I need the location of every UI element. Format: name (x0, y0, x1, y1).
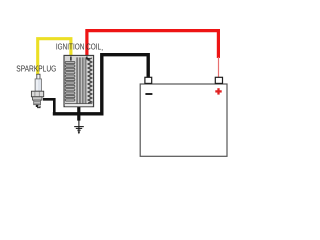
ignition coil T1: light margin strip above bottom edge (65, 104, 93, 106)
ignition coil T1: primary entry hook under yellow lead (70, 57, 72, 61)
battery: plus polarity mark (215, 88, 221, 94)
wire: thin red lead into battery + terminal (218, 57, 220, 78)
svg-text:SPARKPLUG: SPARKPLUG (16, 64, 56, 74)
battery: positive terminal post (215, 77, 222, 83)
ignition coil T1: secondary winding zigzag (right) (88, 58, 92, 103)
wire: red supply wire from coil + terminal to battery + (87, 31, 219, 58)
label: period after COIL (102, 49, 103, 50)
wire: thick bottom ground rail (53, 112, 104, 115)
ground: arrow tip (78, 132, 81, 135)
wire: coil secondary/common bottom lead down through ground rail (77, 102, 80, 121)
ignition coil T1: secondary entry hook under red lead (87, 57, 90, 59)
wire: black wire from ground rail up and over to battery - terminal (102, 55, 148, 115)
spark plug: centre electrode and ground electrode hook (36, 105, 39, 107)
battery: case (140, 84, 227, 156)
battery: minus polarity mark (145, 93, 152, 95)
svg-text:IGNITION COIL: IGNITION COIL (56, 42, 101, 52)
ignition coil T1: inner winding-area bottom border (65, 103, 92, 105)
spark plug: threaded section (34, 100, 41, 105)
battery: negative terminal post (145, 77, 152, 83)
ignition coil T1: primary winding turns (left stack of bars) (65, 61, 75, 101)
ignition coil T1: outer case (64, 55, 94, 106)
ground: earth/ground symbol below coil (74, 120, 84, 132)
spark plug: hex nut (31, 91, 43, 97)
spark plug: ceramic insulator (35, 79, 41, 91)
spark plug: shell/gasket band (33, 97, 43, 100)
wire: spark plug body to ground rail (43, 99, 54, 113)
spark plug: terminal stud (37, 74, 40, 79)
ignition coil T1: laminated iron core (vertical stripes) (76, 57, 87, 103)
wire: yellow HT lead from spark plug to ignition coil primary top (38, 39, 71, 75)
